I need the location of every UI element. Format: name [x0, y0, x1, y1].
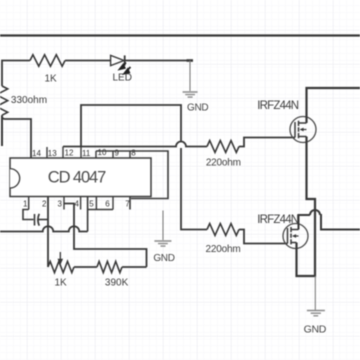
wire LED to GND1: [125, 60, 193, 62]
pin stub 5: [95, 197, 97, 210]
pin stub 4: [80, 197, 82, 210]
svg-text:9: 9: [115, 149, 120, 158]
wire pins 5-6 tie: [88, 197, 113, 232]
transistor Q2 IRFZ44N: [257, 214, 308, 249]
wire pin 12 (Q) to upper 220ohm with hop over vertical: [63, 142, 207, 147]
svg-text:GND: GND: [304, 324, 327, 336]
svg-text:1K: 1K: [54, 278, 67, 289]
wire pin 3 jog to pin 4 column down to bottom loop: [64, 204, 147, 268]
svg-text:2: 2: [42, 200, 47, 209]
potentiometer 1K: [48, 252, 74, 289]
resistor 390K: [97, 261, 129, 288]
pin stub 3: [63, 197, 65, 210]
svg-text:10: 10: [98, 148, 107, 157]
wire 1K to LED: [65, 60, 111, 62]
wire VCC top rail: [0, 34, 360, 36]
pin stub 12: [62, 147, 64, 159]
svg-text:11: 11: [82, 149, 91, 158]
svg-text:IRFZ44N: IRFZ44N: [257, 100, 299, 112]
wire pin 2 down to potentiometer: [47, 197, 49, 268]
svg-text:12: 12: [65, 149, 74, 158]
wire pot to 390K: [74, 266, 97, 268]
wire pins 10-9-8 to pin 7 loop: [96, 151, 168, 199]
wire pin 1 to capacitor: [23, 210, 34, 220]
wire 330ohm bottom, stub end and branch to pin 14: [1, 115, 3, 146]
wire drain Q2 from right edge with hop over source wire: [299, 215, 360, 230]
svg-text:4: 4: [75, 200, 80, 209]
svg-text:3: 3: [58, 200, 63, 209]
transistor Q1 IRFZ44N: [257, 100, 316, 143]
LED D1: [111, 55, 132, 83]
IC U1 CD 4047 body: [10, 158, 151, 197]
wire left net: 1K left lead and down to 330ohm: [2, 61, 30, 87]
wire drain Q1 to right rail: [307, 88, 360, 123]
svg-text:220ohm: 220ohm: [206, 157, 241, 168]
wire lower 220ohm to gate of Q2: [239, 230, 288, 244]
ground GND3: [304, 276, 327, 336]
svg-text:330ohm: 330ohm: [11, 95, 47, 106]
ground GND1: [183, 61, 209, 114]
resistor 220ohm (upper): [206, 141, 241, 169]
pin stub 11: [80, 147, 82, 159]
svg-text:13: 13: [48, 149, 57, 158]
resistor 1K (top): [30, 55, 65, 85]
svg-text:220ohm: 220ohm: [206, 244, 241, 255]
svg-text:8: 8: [131, 149, 136, 158]
svg-text:GND: GND: [187, 103, 208, 114]
wire 390K to loop corner: [122, 266, 147, 268]
wire from left edge with two hops: [0, 226, 88, 231]
svg-text:390K: 390K: [105, 278, 129, 289]
pin stub 7: [129, 197, 131, 210]
wire upper 220ohm to gate of Q1: [239, 138, 295, 147]
pin numbers bottom row: [23, 200, 130, 209]
capacitor C1: [35, 214, 49, 226]
pin stub 13: [46, 147, 48, 158]
svg-text:CD 4047: CD 4047: [48, 169, 106, 187]
svg-text:IRFZ44N: IRFZ44N: [257, 214, 299, 226]
svg-text:GND: GND: [153, 253, 174, 264]
pin stubs 10 9 8: [96, 151, 130, 158]
pin numbers top row: [32, 148, 136, 158]
svg-text:5: 5: [89, 200, 94, 209]
pin stub 1: [28, 197, 30, 210]
resistor 330ohm: [0, 86, 47, 115]
pin stub 6: [112, 197, 114, 210]
resistor 220ohm (lower): [206, 224, 241, 255]
wire source Q1 down to source Q2 loop: [297, 137, 316, 277]
ground GND2 (pin 7 area): [153, 211, 174, 265]
wire pin 11 (Qbar) across and down: [81, 105, 181, 147]
svg-text:1: 1: [23, 200, 28, 209]
svg-text:6: 6: [105, 200, 110, 209]
svg-text:14: 14: [32, 149, 41, 158]
svg-text:1K: 1K: [44, 74, 57, 85]
svg-text:LED: LED: [112, 72, 131, 83]
